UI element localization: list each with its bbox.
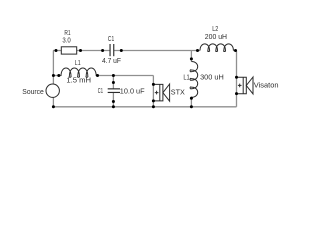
svg-text:Visaton: Visaton [254,81,279,90]
svg-text:Source: Source [22,87,44,96]
svg-text:STX: STX [171,88,185,97]
svg-text:3.0: 3.0 [62,35,70,44]
svg-text:L1: L1 [183,73,189,82]
svg-text:C1: C1 [108,34,114,43]
svg-text:300 uH: 300 uH [200,73,224,82]
svg-text:4.7 uF: 4.7 uF [102,56,121,65]
svg-text:200 uH: 200 uH [205,32,227,41]
svg-text:C1: C1 [98,86,103,95]
svg-text:1.5 mH: 1.5 mH [66,76,91,85]
svg-text:L1: L1 [75,58,81,67]
svg-text:10.0 uF: 10.0 uF [120,86,145,95]
